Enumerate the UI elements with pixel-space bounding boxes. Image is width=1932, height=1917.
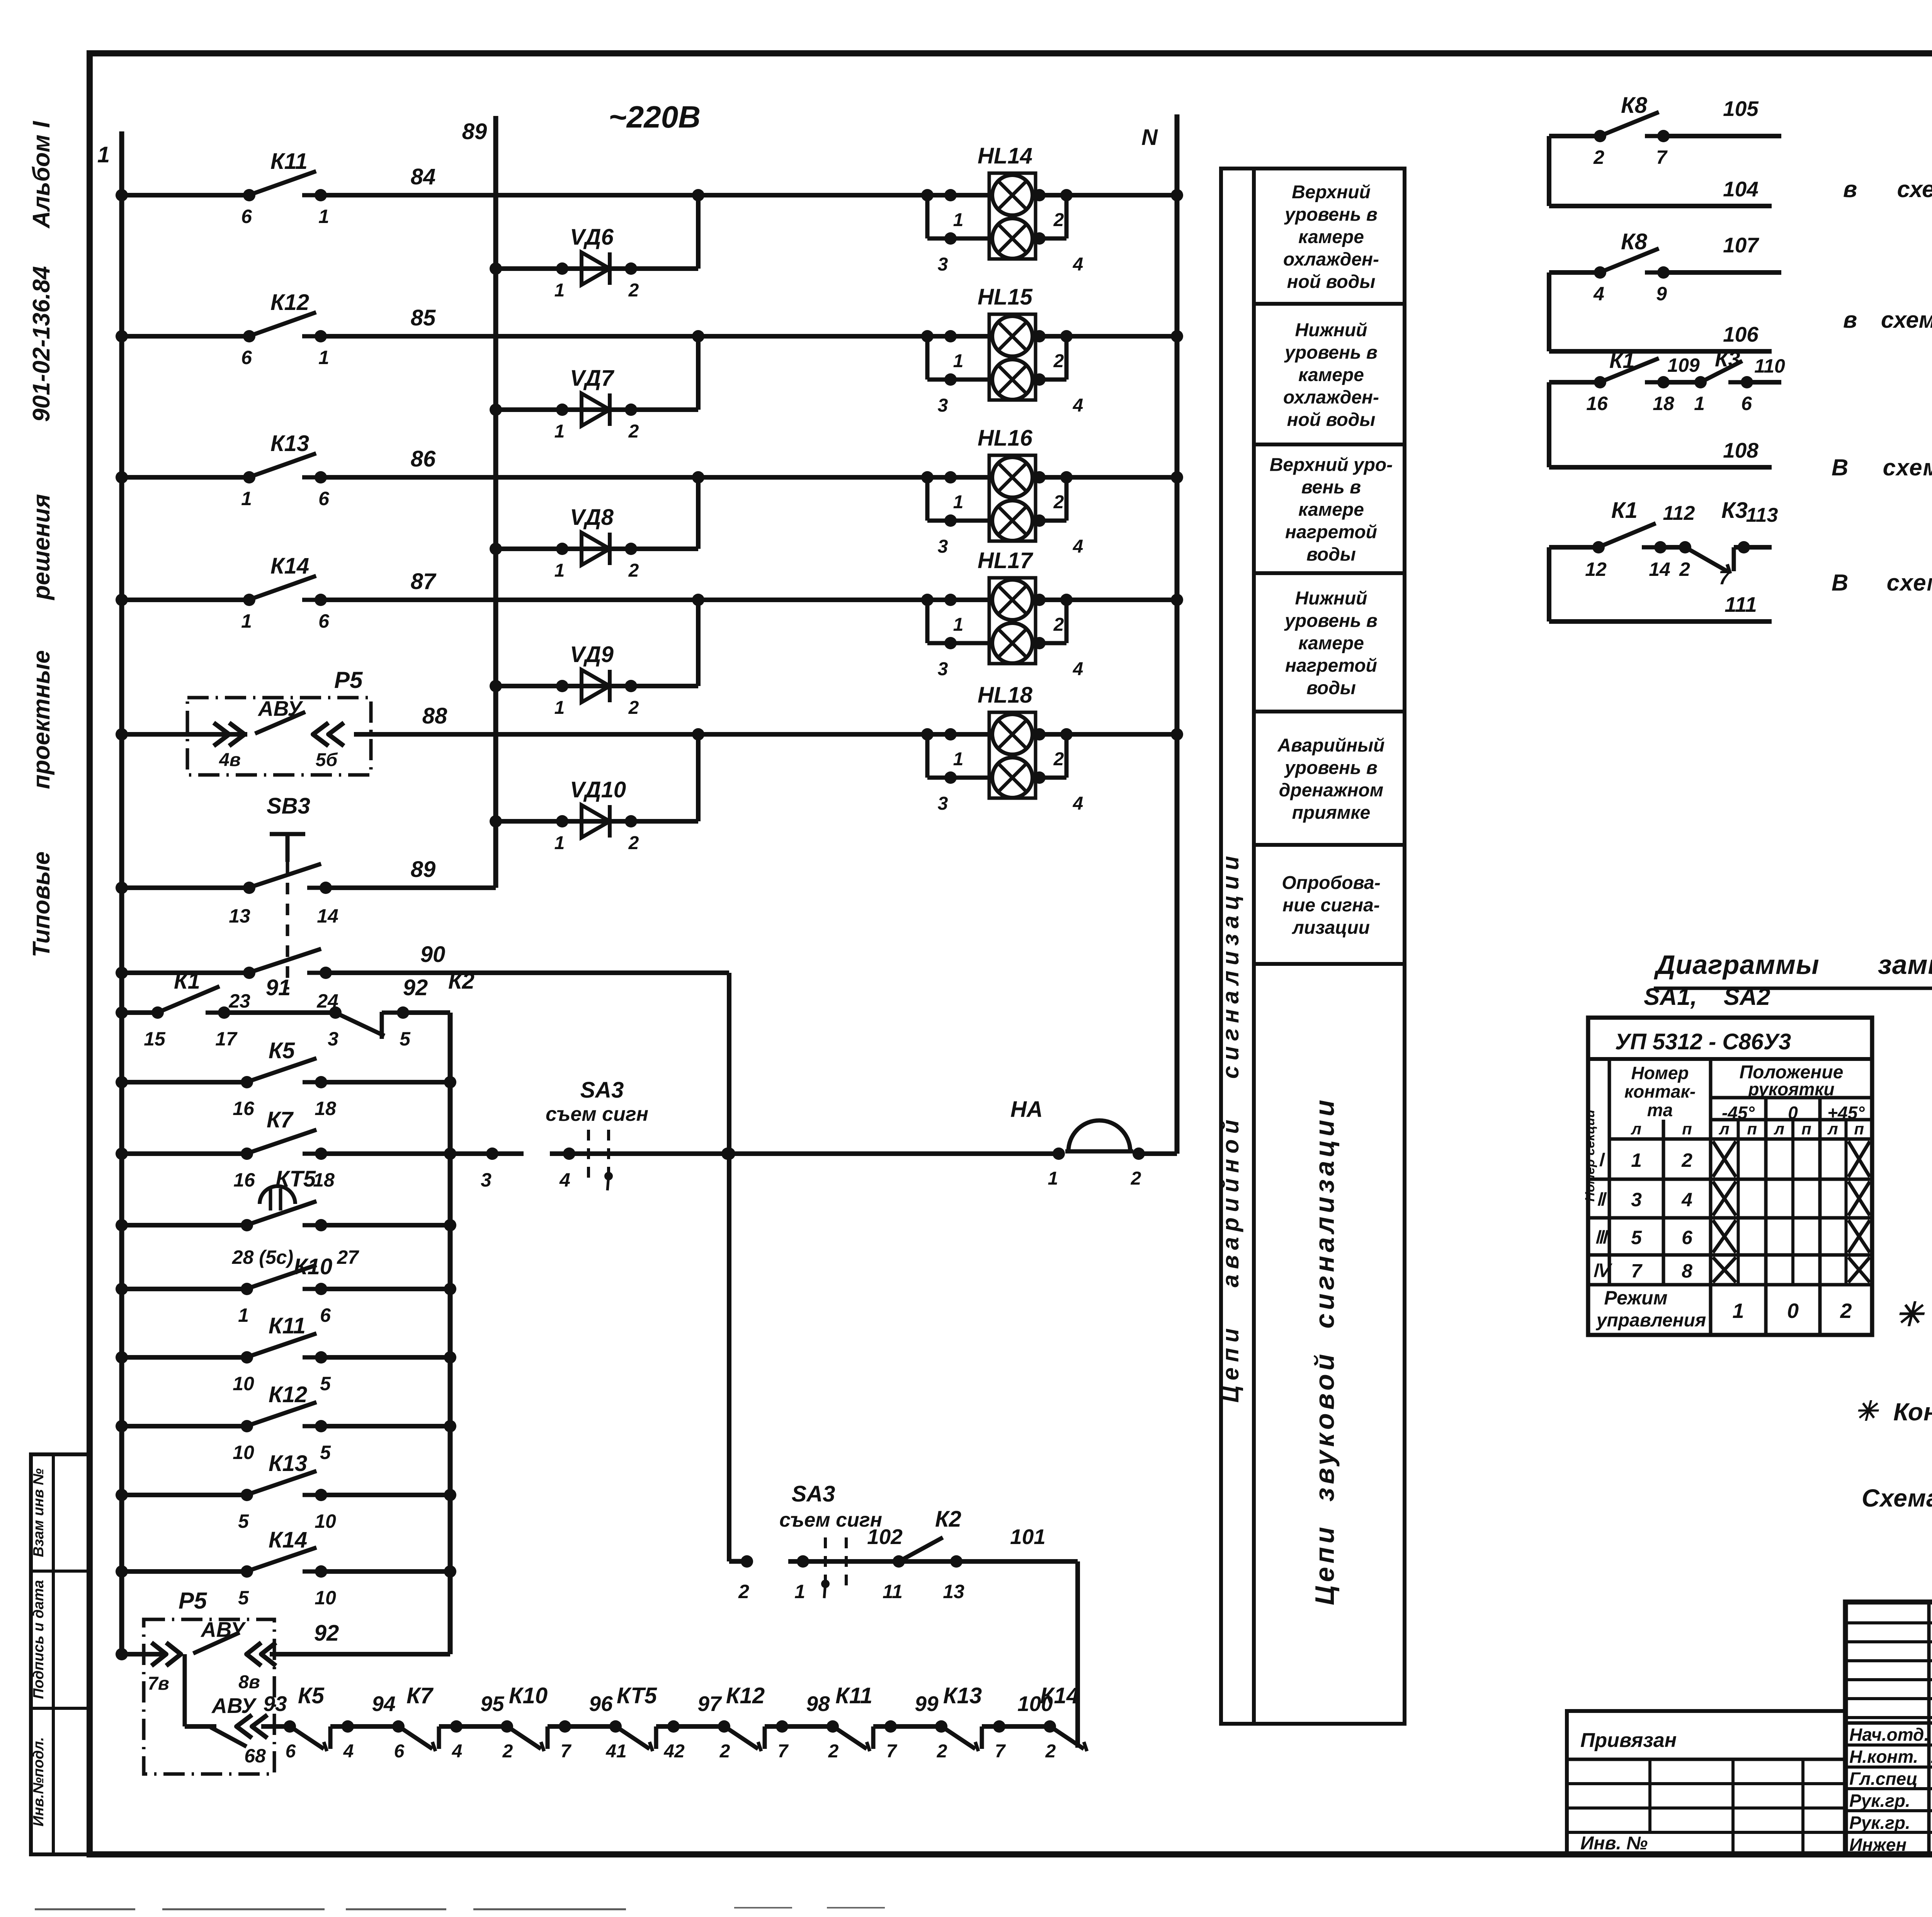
svg-text:68: 68 bbox=[244, 1745, 266, 1767]
svg-text:2: 2 bbox=[1053, 615, 1064, 635]
svg-text:3: 3 bbox=[481, 1169, 492, 1191]
svg-text:5: 5 bbox=[320, 1442, 331, 1463]
svg-text:К11: К11 bbox=[270, 149, 308, 174]
svg-text:3: 3 bbox=[938, 395, 948, 416]
svg-text:Подпись и дата: Подпись и дата bbox=[31, 1580, 47, 1699]
svg-text:1: 1 bbox=[1694, 393, 1705, 414]
svg-text:4: 4 bbox=[1073, 659, 1083, 679]
svg-text:ной воды: ной воды bbox=[1287, 410, 1376, 430]
svg-text:камере: камере bbox=[1298, 365, 1364, 385]
svg-text:15: 15 bbox=[144, 1028, 166, 1050]
svg-text:4в: 4в bbox=[219, 750, 241, 770]
svg-text:та: та bbox=[1647, 1100, 1673, 1120]
svg-text:Аварийный: Аварийный bbox=[1277, 735, 1385, 756]
svg-text:7: 7 bbox=[886, 1741, 898, 1762]
svg-text:1: 1 bbox=[953, 210, 964, 230]
svg-text:1: 1 bbox=[953, 615, 964, 635]
svg-text:4: 4 bbox=[1073, 395, 1083, 416]
svg-text:6: 6 bbox=[394, 1741, 405, 1762]
svg-text:113: 113 bbox=[1746, 504, 1778, 526]
svg-text:27: 27 bbox=[337, 1246, 359, 1268]
svg-text:К1: К1 bbox=[1609, 348, 1635, 373]
svg-text:14: 14 bbox=[1649, 558, 1670, 580]
svg-text:К14: К14 bbox=[270, 553, 309, 579]
svg-text:Инжен: Инжен bbox=[1849, 1835, 1906, 1855]
svg-text:проектные: проектные bbox=[28, 650, 55, 789]
svg-text:HL16: HL16 bbox=[978, 426, 1033, 451]
svg-text:Верхний: Верхний bbox=[1292, 182, 1371, 203]
svg-text:Инв. №: Инв. № bbox=[1580, 1833, 1648, 1854]
svg-text:К13: К13 bbox=[270, 431, 309, 456]
svg-text:HL14: HL14 bbox=[978, 143, 1032, 169]
svg-text:воды: воды bbox=[1306, 545, 1356, 565]
svg-text:2: 2 bbox=[628, 698, 639, 718]
svg-text:VД6: VД6 bbox=[570, 225, 614, 250]
svg-text:3: 3 bbox=[938, 659, 948, 679]
svg-text:16: 16 bbox=[233, 1098, 255, 1119]
svg-text:1: 1 bbox=[241, 610, 252, 632]
svg-text:6: 6 bbox=[1682, 1227, 1693, 1248]
svg-text:К2: К2 bbox=[448, 969, 474, 994]
svg-text:97: 97 bbox=[697, 1692, 722, 1716]
svg-text:90: 90 bbox=[420, 942, 446, 967]
svg-text:SА3: SА3 bbox=[792, 1481, 835, 1507]
svg-text:Нижний: Нижний bbox=[1295, 320, 1367, 340]
svg-text:94: 94 bbox=[372, 1692, 395, 1716]
svg-text:6: 6 bbox=[318, 610, 330, 632]
svg-text:92: 92 bbox=[403, 975, 428, 1000]
svg-text:1: 1 bbox=[554, 280, 565, 301]
svg-text:нагретой: нагретой bbox=[1285, 522, 1377, 543]
svg-text:3: 3 bbox=[938, 793, 948, 814]
svg-text:1: 1 bbox=[953, 492, 964, 512]
svg-text:Р5: Р5 bbox=[334, 667, 363, 693]
svg-text:18: 18 bbox=[315, 1098, 336, 1119]
svg-text:В схему диспетчерской сигна: В схему диспетчерской сигнализации (авар… bbox=[1832, 570, 1932, 596]
svg-text:1: 1 bbox=[238, 1304, 249, 1326]
svg-text:2: 2 bbox=[1681, 1149, 1692, 1171]
svg-text:28 (5с): 28 (5с) bbox=[232, 1246, 293, 1268]
svg-text:1: 1 bbox=[554, 698, 565, 718]
svg-text:3: 3 bbox=[938, 254, 948, 275]
svg-text:охлажден-: охлажден- bbox=[1283, 249, 1379, 270]
svg-text:4: 4 bbox=[559, 1169, 570, 1191]
svg-text:11: 11 bbox=[883, 1581, 903, 1602]
svg-text:91: 91 bbox=[266, 975, 291, 1000]
svg-text:В схему диспетчерской сигна: В схему диспетчерской сигнализации (вклю… bbox=[1832, 455, 1932, 480]
svg-text:п: п bbox=[1747, 1120, 1757, 1138]
svg-text:VД9: VД9 bbox=[570, 642, 614, 667]
svg-text:лизации: лизации bbox=[1292, 918, 1370, 938]
svg-text:2: 2 bbox=[1840, 1299, 1852, 1323]
svg-text:4: 4 bbox=[1073, 536, 1083, 557]
svg-text:К11: К11 bbox=[835, 1683, 872, 1708]
svg-text:1: 1 bbox=[1732, 1299, 1744, 1323]
svg-text:VД8: VД8 bbox=[570, 505, 614, 530]
svg-text:4: 4 bbox=[1593, 283, 1604, 305]
svg-text:12: 12 bbox=[1585, 558, 1607, 580]
svg-text:К3: К3 bbox=[1715, 347, 1740, 371]
svg-text:10: 10 bbox=[315, 1510, 336, 1532]
svg-text:уровень в: уровень в bbox=[1284, 611, 1378, 631]
svg-text:106: 106 bbox=[1723, 322, 1759, 346]
svg-text:2: 2 bbox=[628, 280, 639, 301]
svg-text:5б: 5б bbox=[316, 750, 338, 770]
svg-text:1: 1 bbox=[554, 833, 565, 853]
svg-text:дренажном: дренажном bbox=[1279, 780, 1384, 801]
svg-text:К7: К7 bbox=[267, 1107, 294, 1132]
svg-text:111: 111 bbox=[1725, 592, 1757, 616]
svg-text:7: 7 bbox=[1656, 146, 1668, 168]
svg-text:решения: решения bbox=[28, 494, 55, 601]
svg-text:5: 5 bbox=[400, 1028, 411, 1050]
svg-text:К7: К7 bbox=[406, 1683, 434, 1708]
svg-text:К12: К12 bbox=[269, 1382, 307, 1407]
svg-text:SA1, SA2: SA1, SA2 bbox=[1644, 984, 1770, 1010]
svg-text:✳: ✳ bbox=[1855, 1396, 1879, 1426]
svg-text:К8: К8 bbox=[1621, 93, 1648, 118]
svg-text:приямке: приямке bbox=[1292, 803, 1371, 823]
svg-text:Нижний: Нижний bbox=[1295, 588, 1367, 609]
svg-text:7в: 7в bbox=[148, 1674, 169, 1694]
svg-text:Схема выполнена на листах: Схема выполнена на листах 3-6 bbox=[1862, 1484, 1932, 1512]
svg-text:2: 2 bbox=[1045, 1741, 1056, 1762]
svg-text:воды: воды bbox=[1306, 678, 1356, 698]
svg-text:КТ5: КТ5 bbox=[617, 1683, 657, 1708]
svg-text:6: 6 bbox=[241, 206, 252, 227]
svg-text:АВУ: АВУ bbox=[257, 696, 303, 720]
svg-text:1: 1 bbox=[554, 421, 565, 442]
svg-text:Инв.№подл.: Инв.№подл. bbox=[31, 1737, 47, 1826]
svg-text:1: 1 bbox=[554, 560, 565, 581]
svg-text:SА3: SА3 bbox=[580, 1078, 624, 1103]
svg-text:~220В: ~220В bbox=[609, 100, 701, 134]
svg-text:К5: К5 bbox=[298, 1683, 325, 1708]
svg-text:Номер секции: Номер секции bbox=[1583, 1110, 1597, 1202]
svg-text:К13: К13 bbox=[269, 1451, 307, 1476]
svg-text:99: 99 bbox=[915, 1692, 939, 1716]
svg-text:5: 5 bbox=[320, 1373, 331, 1394]
svg-text:109: 109 bbox=[1667, 354, 1700, 376]
svg-text:К13: К13 bbox=[943, 1683, 982, 1708]
svg-text:Взам инв №: Взам инв № bbox=[31, 1468, 47, 1557]
svg-text:л: л bbox=[1827, 1120, 1838, 1138]
svg-text:6: 6 bbox=[320, 1304, 331, 1326]
svg-text:7: 7 bbox=[778, 1741, 789, 1762]
svg-text:АВУ: АВУ bbox=[211, 1694, 257, 1718]
svg-text:Рук.гр.: Рук.гр. bbox=[1849, 1813, 1910, 1833]
svg-text:К10: К10 bbox=[509, 1683, 548, 1708]
svg-text:2: 2 bbox=[1053, 351, 1064, 371]
svg-text:К11: К11 bbox=[269, 1313, 306, 1338]
svg-text:л: л bbox=[1631, 1120, 1641, 1138]
svg-text:2: 2 bbox=[628, 421, 639, 442]
svg-text:7: 7 bbox=[1631, 1260, 1643, 1282]
svg-text:98: 98 bbox=[806, 1692, 830, 1716]
svg-text:1: 1 bbox=[953, 749, 964, 770]
svg-text:107: 107 bbox=[1723, 233, 1759, 257]
svg-text:К14: К14 bbox=[1040, 1683, 1079, 1708]
svg-text:✳: ✳ bbox=[1895, 1296, 1925, 1333]
svg-text:92: 92 bbox=[314, 1621, 339, 1646]
svg-text:41: 41 bbox=[605, 1741, 626, 1762]
svg-text:К10: К10 bbox=[294, 1254, 332, 1279]
svg-text:HL17: HL17 bbox=[978, 548, 1034, 573]
svg-text:10: 10 bbox=[233, 1442, 254, 1463]
svg-text:18: 18 bbox=[313, 1169, 335, 1191]
svg-text:Р5: Р5 bbox=[179, 1588, 207, 1614]
svg-text:2: 2 bbox=[628, 560, 639, 581]
svg-text:К8: К8 bbox=[1621, 229, 1648, 254]
svg-text:2: 2 bbox=[937, 1741, 947, 1762]
svg-text:85: 85 bbox=[411, 305, 436, 330]
svg-text:16: 16 bbox=[233, 1169, 255, 1191]
svg-text:95: 95 bbox=[480, 1692, 505, 1716]
svg-text:86: 86 bbox=[411, 446, 436, 472]
svg-text:93: 93 bbox=[263, 1692, 287, 1716]
svg-text:Привязан: Привязан bbox=[1580, 1729, 1677, 1752]
svg-text:4: 4 bbox=[1073, 793, 1083, 814]
svg-text:VД10: VД10 bbox=[570, 777, 626, 802]
svg-text:901-02-136.84: 901-02-136.84 bbox=[28, 266, 55, 422]
svg-text:уровень в: уровень в bbox=[1284, 204, 1378, 225]
svg-text:вень в: вень в bbox=[1301, 477, 1361, 498]
svg-text:Номер: Номер bbox=[1631, 1063, 1689, 1083]
svg-text:камере: камере bbox=[1298, 227, 1364, 247]
svg-text:Режим: Режим bbox=[1604, 1287, 1667, 1309]
svg-text:Альбом I: Альбом I bbox=[28, 121, 55, 229]
svg-text:К1: К1 bbox=[174, 969, 200, 994]
svg-text:5: 5 bbox=[1631, 1227, 1642, 1248]
svg-text:1: 1 bbox=[953, 351, 964, 371]
svg-text:НА: НА bbox=[1010, 1097, 1043, 1122]
svg-text:К1: К1 bbox=[1611, 498, 1638, 523]
svg-text:нагретой: нагретой bbox=[1285, 655, 1377, 676]
svg-text:1: 1 bbox=[1048, 1168, 1058, 1189]
svg-text:Нач.отд.: Нач.отд. bbox=[1849, 1725, 1929, 1745]
svg-text:HL18: HL18 bbox=[978, 683, 1033, 708]
svg-text:6: 6 bbox=[318, 488, 330, 509]
svg-text:Контакты не используются: Контакты не используются bbox=[1893, 1398, 1932, 1426]
svg-text:8в: 8в bbox=[238, 1672, 260, 1692]
svg-text:HL15: HL15 bbox=[978, 284, 1033, 310]
svg-text:14: 14 bbox=[317, 905, 338, 927]
svg-text:камере: камере bbox=[1298, 633, 1364, 654]
svg-text:23: 23 bbox=[228, 990, 250, 1012]
svg-text:в схему управления вентилято: в схему управления вентилятором 2 градир… bbox=[1843, 307, 1932, 333]
svg-text:87: 87 bbox=[411, 569, 437, 594]
svg-text:6: 6 bbox=[286, 1741, 296, 1762]
svg-text:7: 7 bbox=[1719, 567, 1730, 589]
svg-text:101: 101 bbox=[1010, 1525, 1046, 1549]
svg-text:Рук.гр.: Рук.гр. bbox=[1849, 1791, 1910, 1811]
svg-text:п: п bbox=[1854, 1120, 1864, 1138]
svg-text:5: 5 bbox=[238, 1510, 249, 1532]
svg-text:5: 5 bbox=[238, 1587, 249, 1609]
svg-text:К14: К14 bbox=[269, 1527, 307, 1553]
svg-text:N: N bbox=[1141, 125, 1158, 150]
svg-text:102: 102 bbox=[867, 1525, 903, 1549]
svg-text:управления: управления bbox=[1596, 1310, 1706, 1331]
svg-text:108: 108 bbox=[1723, 438, 1759, 462]
svg-text:уровень в: уровень в bbox=[1284, 342, 1378, 363]
svg-text:камере: камере bbox=[1298, 500, 1364, 520]
svg-text:1: 1 bbox=[97, 142, 110, 167]
svg-text:8: 8 bbox=[1682, 1260, 1692, 1282]
svg-text:7: 7 bbox=[995, 1741, 1006, 1762]
svg-text:К12: К12 bbox=[726, 1683, 765, 1708]
svg-text:9: 9 bbox=[1656, 283, 1667, 305]
svg-text:Опробова-: Опробова- bbox=[1282, 873, 1380, 893]
svg-text:п: п bbox=[1682, 1120, 1692, 1138]
svg-text:1: 1 bbox=[241, 488, 252, 509]
svg-text:охлажден-: охлажден- bbox=[1283, 387, 1379, 408]
svg-text:1: 1 bbox=[1631, 1149, 1642, 1171]
svg-text:10: 10 bbox=[233, 1373, 254, 1394]
svg-text:2: 2 bbox=[1053, 492, 1064, 512]
svg-text:п: п bbox=[1801, 1120, 1811, 1138]
svg-text:18: 18 bbox=[1653, 393, 1674, 414]
svg-text:уровень в: уровень в bbox=[1284, 758, 1378, 778]
svg-text:4: 4 bbox=[1681, 1189, 1692, 1210]
svg-text:2: 2 bbox=[502, 1741, 513, 1762]
svg-text:VД7: VД7 bbox=[570, 366, 615, 391]
svg-text:89: 89 bbox=[411, 857, 436, 882]
svg-text:Гл.спец: Гл.спец bbox=[1849, 1769, 1918, 1789]
svg-text:К2: К2 bbox=[935, 1507, 961, 1532]
svg-text:Верхний уро-: Верхний уро- bbox=[1270, 455, 1393, 475]
svg-text:112: 112 bbox=[1663, 502, 1695, 524]
svg-text:3: 3 bbox=[1631, 1189, 1642, 1210]
svg-text:105: 105 bbox=[1723, 97, 1759, 121]
svg-text:Цепи звуковой сигнализации: Цепи звуковой сигнализации bbox=[1310, 1096, 1340, 1605]
svg-text:Ⅲ: Ⅲ bbox=[1595, 1227, 1609, 1247]
svg-text:Н.конт.: Н.конт. bbox=[1849, 1747, 1918, 1767]
svg-text:89: 89 bbox=[462, 119, 487, 144]
svg-text:контак-: контак- bbox=[1624, 1081, 1696, 1102]
svg-text:3: 3 bbox=[328, 1028, 338, 1050]
svg-text:4: 4 bbox=[452, 1741, 463, 1762]
svg-text:84: 84 bbox=[411, 164, 436, 189]
svg-text:17: 17 bbox=[215, 1028, 238, 1050]
svg-text:1: 1 bbox=[318, 347, 329, 368]
svg-text:л: л bbox=[1719, 1120, 1730, 1138]
svg-text:Типовые: Типовые bbox=[28, 851, 55, 957]
svg-text:4: 4 bbox=[1073, 254, 1083, 275]
svg-text:2: 2 bbox=[1053, 210, 1064, 230]
svg-text:2: 2 bbox=[1053, 749, 1064, 770]
svg-text:6: 6 bbox=[241, 347, 252, 368]
svg-text:съем сигн: съем сигн bbox=[546, 1103, 648, 1125]
svg-text:К12: К12 bbox=[270, 290, 309, 315]
svg-text:13: 13 bbox=[229, 905, 250, 927]
svg-text:ной воды: ной воды bbox=[1287, 272, 1376, 292]
svg-text:2: 2 bbox=[1131, 1168, 1141, 1189]
svg-text:88: 88 bbox=[422, 703, 447, 729]
svg-text:ние сигна-: ние сигна- bbox=[1282, 895, 1380, 916]
svg-text:4: 4 bbox=[343, 1741, 354, 1762]
svg-text:3: 3 bbox=[938, 536, 948, 557]
svg-text:2: 2 bbox=[738, 1581, 749, 1602]
svg-text:2: 2 bbox=[1593, 146, 1604, 168]
svg-text:2: 2 bbox=[719, 1741, 730, 1762]
svg-text:7: 7 bbox=[561, 1741, 572, 1762]
svg-text:42: 42 bbox=[663, 1741, 685, 1762]
svg-text:SВ3: SВ3 bbox=[267, 793, 310, 819]
svg-text:0: 0 bbox=[1787, 1299, 1799, 1323]
svg-text:Диаграммы замыкания контак: Диаграммы замыкания контактов переключат… bbox=[1654, 950, 1932, 980]
svg-text:К5: К5 bbox=[269, 1038, 295, 1063]
svg-text:2: 2 bbox=[1679, 558, 1690, 580]
svg-text:1: 1 bbox=[794, 1581, 805, 1602]
svg-text:2: 2 bbox=[628, 833, 639, 853]
svg-text:АВУ: АВУ bbox=[200, 1617, 246, 1641]
svg-text:104: 104 bbox=[1723, 177, 1759, 201]
svg-text:13: 13 bbox=[943, 1581, 964, 1602]
svg-text:110: 110 bbox=[1754, 355, 1785, 377]
svg-text:УП 5312 - С86У3: УП 5312 - С86У3 bbox=[1615, 1029, 1791, 1054]
svg-text:6: 6 bbox=[1741, 393, 1752, 414]
svg-text:16: 16 bbox=[1586, 393, 1608, 414]
svg-text:л: л bbox=[1774, 1120, 1784, 1138]
svg-text:2: 2 bbox=[828, 1741, 839, 1762]
svg-text:Цепи аварийной сигнализаци: Цепи аварийной сигнализации bbox=[1218, 851, 1243, 1403]
svg-text:1: 1 bbox=[318, 206, 329, 227]
svg-text:96: 96 bbox=[589, 1692, 613, 1716]
svg-text:К3: К3 bbox=[1721, 498, 1748, 523]
svg-text:в схему управления вентилят: в схему управления вентилятором 1 градир… bbox=[1843, 176, 1932, 202]
svg-text:10: 10 bbox=[315, 1587, 336, 1609]
